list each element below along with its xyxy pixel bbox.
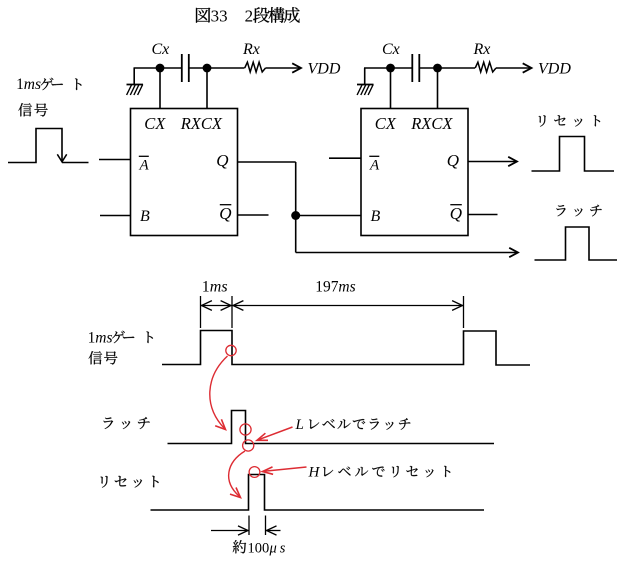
- wire+arrow: Q2 to reset output: [468, 157, 517, 166]
- capacitor Cx (stage 2): [412, 54, 419, 82]
- svg-text:197: 197: [315, 279, 339, 296]
- label: ラッチ (circuit output): [556, 205, 601, 217]
- label: 1msゲート (timing): [88, 330, 153, 347]
- label: 197ms (dimension): [315, 279, 355, 296]
- label Rx (stage 1): [242, 41, 260, 58]
- svg-text:L: L: [295, 417, 304, 433]
- svg-text:Cx: Cx: [152, 41, 170, 58]
- wire: A-bar input stub (U1): [99, 159, 131, 161]
- resistor Rx (stage 2): [475, 62, 496, 72]
- svg-text:ms: ms: [338, 279, 355, 296]
- input waveform: 1ms gate pulse: [8, 129, 89, 163]
- label Cx (stage 2): [382, 41, 400, 58]
- label: 約100μs: [233, 540, 286, 556]
- wire+arrow: Rx to VDD (stage 1): [266, 63, 302, 72]
- pin label RXCX (U2): [410, 114, 453, 133]
- svg-text:Rx: Rx: [242, 41, 260, 58]
- svg-text:1: 1: [16, 76, 24, 93]
- wire: junction to B input (U2): [296, 215, 361, 217]
- svg-text:2: 2: [245, 6, 254, 25]
- resistor Rx (stage 1): [245, 62, 266, 72]
- svg-text:RXCX: RXCX: [180, 114, 223, 133]
- pin label CX (U1): [144, 114, 166, 133]
- svg-text:Q: Q: [450, 204, 462, 223]
- red circle: latch edge lower: [243, 440, 254, 451]
- label: 信号 (input): [18, 103, 47, 116]
- red circle: latch edge upper: [240, 424, 251, 435]
- label: ラッチ (timing): [104, 417, 150, 429]
- svg-text:A: A: [139, 158, 150, 174]
- dimension arrows: 197ms: [232, 301, 464, 311]
- output waveform: reset pulse: [532, 137, 615, 172]
- dimension arrows: 100us: [211, 526, 281, 535]
- pin label CX (U2): [375, 114, 397, 133]
- svg-text:100: 100: [248, 540, 270, 556]
- svg-text:RXCX: RXCX: [410, 114, 453, 133]
- power label VDD (stage 1): [308, 61, 341, 78]
- svg-text:H: H: [308, 465, 321, 481]
- wire: RXCX pin to block top (stage 2): [437, 68, 439, 109]
- pin label RXCX (U1): [180, 114, 223, 133]
- label: リセット (circuit output): [539, 115, 600, 126]
- svg-text:Cx: Cx: [382, 41, 400, 58]
- wire+arrow: latch line to output: [296, 248, 518, 257]
- wire: ground rail to Cx left plate (stage 1): [134, 67, 182, 69]
- svg-text:CX: CX: [375, 114, 397, 133]
- label: Lレベルでラッチ: [295, 417, 411, 433]
- pin label Q (U2): [447, 151, 459, 170]
- wire: Q-bar stub (U2): [468, 214, 498, 216]
- one-shot block U1: [131, 109, 238, 236]
- svg-text:33: 33: [211, 6, 228, 25]
- pin label Q-bar (U1): [219, 204, 231, 223]
- svg-text:ms: ms: [210, 279, 228, 296]
- svg-text:μ: μ: [269, 540, 277, 556]
- pin label B (U1): [140, 208, 150, 225]
- svg-text:Q: Q: [219, 204, 231, 223]
- wire: Cx right plate to Rx (stage 1): [189, 67, 245, 69]
- red arrow: L-level latch callout: [257, 427, 293, 440]
- red circle: gate falling edge: [226, 345, 236, 355]
- wire: Q1 output to down-corner: [238, 161, 296, 163]
- ground symbol (stage 2): [357, 68, 374, 95]
- dimension ticks: 100us: [249, 516, 266, 536]
- output waveform: latch pulse: [535, 227, 618, 260]
- svg-text:ms: ms: [95, 330, 112, 347]
- junction node: CX pin (stage 1): [156, 64, 165, 73]
- capacitor Cx (stage 1): [182, 54, 189, 82]
- wire: B input stub (U1): [100, 215, 131, 217]
- label Rx (stage 2): [473, 41, 491, 58]
- timing waveform: 1ms gate signal: [162, 331, 530, 366]
- svg-text:Q: Q: [216, 151, 228, 170]
- svg-text:A: A: [369, 158, 380, 174]
- svg-text:VDD: VDD: [538, 61, 571, 78]
- junction node: Q1/B2/latch: [291, 211, 300, 220]
- svg-text:Rx: Rx: [473, 41, 491, 58]
- timing waveform: latch pulse: [168, 411, 495, 444]
- label: 1ms (dimension): [202, 279, 228, 296]
- wire: vertical Q1 down: [295, 162, 297, 253]
- red circle: reset rising edge: [249, 467, 260, 478]
- title: 図33 2段構成: [196, 6, 300, 25]
- label: 信号 (timing): [89, 351, 118, 364]
- one-shot block U2: [361, 109, 468, 236]
- red arrow: H-level reset callout: [263, 467, 307, 474]
- junction node: RXCX pin (stage 1): [203, 64, 212, 73]
- junction node: CX pin (stage 2): [386, 64, 395, 73]
- pin label A-bar (U1): [139, 156, 150, 173]
- dimension ticks: 1ms / 197ms: [201, 296, 464, 328]
- svg-text:1: 1: [202, 279, 210, 296]
- wire: A-bar input stub (U2): [329, 157, 361, 159]
- wire: Q-bar stub (U1): [238, 214, 269, 216]
- wire: ground rail to Cx left plate (stage 2): [364, 67, 412, 69]
- label Cx (stage 1): [152, 41, 170, 58]
- wire: Cx right plate to Rx (stage 2): [419, 67, 475, 69]
- pin label Q-bar (U2): [450, 204, 462, 223]
- svg-text:CX: CX: [144, 114, 166, 133]
- pin label A-bar (U2): [369, 156, 380, 173]
- label: リセット (timing): [101, 476, 159, 488]
- svg-text:VDD: VDD: [308, 61, 341, 78]
- ground symbol (stage 1): [127, 68, 144, 95]
- svg-text:1: 1: [88, 330, 96, 347]
- svg-text:ms: ms: [24, 76, 41, 93]
- svg-text:Q: Q: [447, 151, 459, 170]
- svg-text:B: B: [371, 208, 381, 225]
- wire: CX pin to block top (stage 2): [390, 68, 392, 109]
- pin label B (U2): [371, 208, 381, 225]
- label: Hレベルでリセット: [308, 465, 451, 481]
- wire: CX pin to block top (stage 1): [159, 68, 161, 109]
- label: 1msゲート (input): [16, 76, 81, 93]
- timing waveform: reset pulse: [151, 475, 485, 511]
- red curve: gate edge to latch pulse: [210, 356, 228, 430]
- power label VDD (stage 2): [538, 61, 571, 78]
- junction node: RXCX pin (stage 2): [433, 64, 442, 73]
- red curve: latch to reset pulse: [229, 451, 245, 498]
- svg-text:s: s: [280, 540, 286, 556]
- wire: RXCX pin to block top (stage 1): [206, 68, 208, 109]
- pin label Q (U1): [216, 151, 228, 170]
- dimension arrows: 1ms: [201, 301, 233, 311]
- svg-text:B: B: [140, 208, 150, 225]
- wire+arrow: Rx to VDD (stage 2): [496, 63, 532, 72]
